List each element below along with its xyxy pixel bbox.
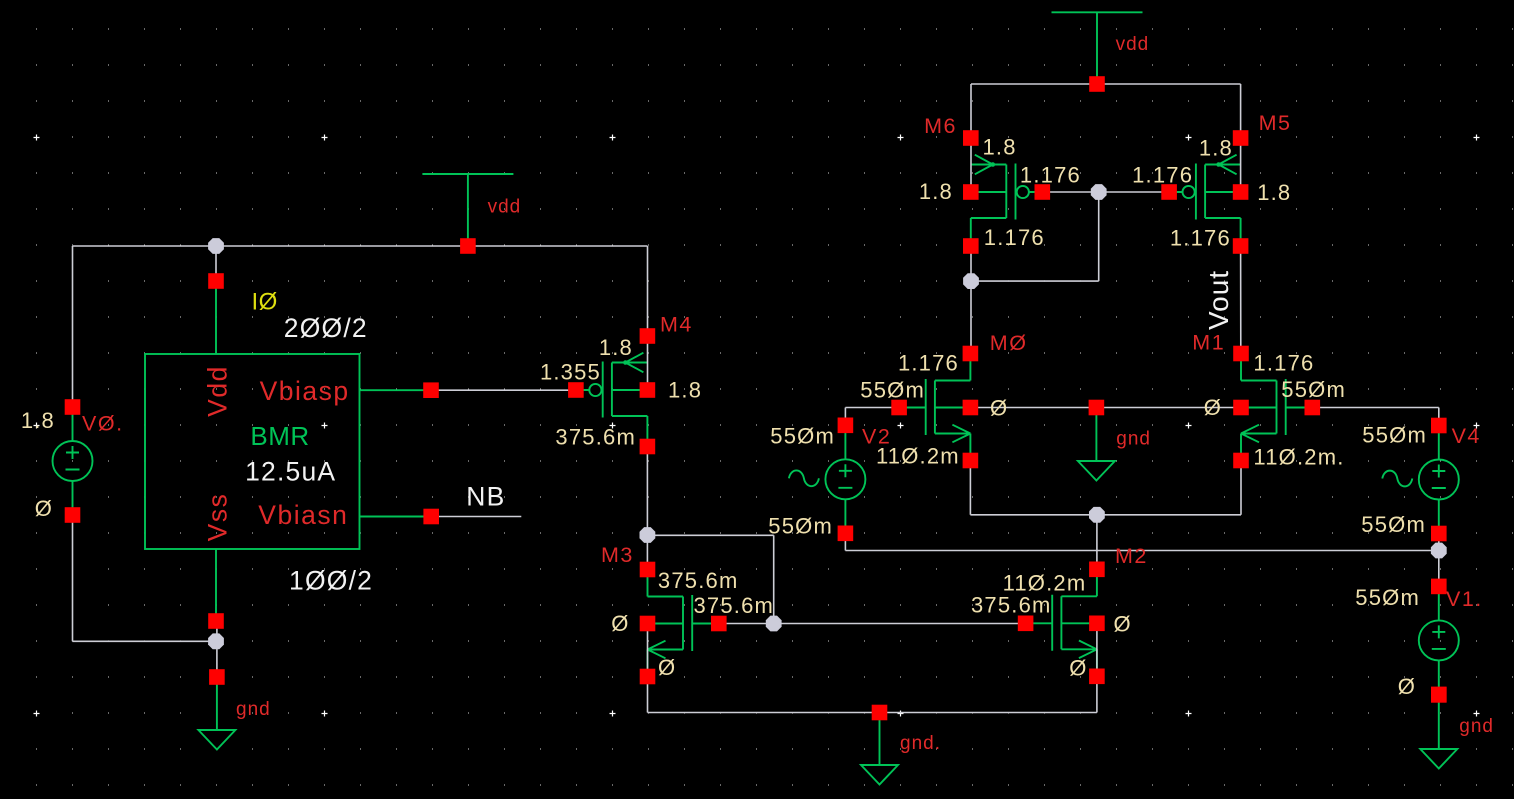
svg-text:M2: M2	[1115, 544, 1148, 568]
svg-text:55Øm: 55Øm	[1361, 512, 1426, 537]
svg-text:1.176: 1.176	[1132, 163, 1193, 188]
svg-text:1.8: 1.8	[599, 335, 633, 360]
svg-text:BMR: BMR	[250, 421, 309, 451]
svg-text:375.6m: 375.6m	[694, 593, 775, 618]
svg-text:Vss: Vss	[203, 493, 233, 542]
svg-text:gnd: gnd	[1459, 716, 1494, 737]
svg-text:55Øm: 55Øm	[860, 378, 925, 403]
svg-text:1.176: 1.176	[1253, 351, 1314, 376]
svg-text:Ø: Ø	[1114, 612, 1132, 637]
svg-text:1.8: 1.8	[21, 408, 55, 433]
svg-text:375.6m: 375.6m	[971, 593, 1052, 618]
svg-text:M4: M4	[660, 312, 693, 336]
svg-text:Vbiasn: Vbiasn	[258, 500, 348, 530]
svg-text:1ØØ/2: 1ØØ/2	[289, 565, 373, 595]
svg-text:1.8: 1.8	[1257, 180, 1291, 205]
svg-text:gnd: gnd	[236, 699, 271, 720]
svg-text:NB: NB	[466, 482, 505, 512]
svg-text:vdd: vdd	[488, 197, 522, 218]
svg-text:55Øm: 55Øm	[770, 424, 835, 449]
svg-text:375.6m: 375.6m	[555, 424, 636, 449]
svg-text:M6: M6	[924, 114, 957, 138]
svg-text:Ø: Ø	[35, 496, 53, 521]
svg-text:55Øm: 55Øm	[1281, 377, 1346, 402]
svg-text:1.8: 1.8	[1199, 136, 1233, 161]
svg-text:55Øm: 55Øm	[768, 514, 833, 539]
svg-text:11Ø.2m.: 11Ø.2m.	[1253, 445, 1344, 470]
svg-text:M3: M3	[601, 543, 634, 567]
svg-text:Ø: Ø	[1069, 656, 1087, 681]
svg-text:vdd: vdd	[1116, 34, 1150, 55]
svg-text:1.176: 1.176	[898, 351, 959, 376]
svg-text:Ø: Ø	[658, 655, 676, 680]
svg-text:1.8: 1.8	[919, 179, 953, 204]
svg-text:12.5uA: 12.5uA	[245, 456, 336, 486]
svg-text:Ø: Ø	[1204, 395, 1222, 420]
svg-text:M1: M1	[1192, 331, 1225, 355]
svg-text:375.6m: 375.6m	[658, 568, 739, 593]
svg-text:IØ: IØ	[252, 289, 278, 316]
svg-text:Ø: Ø	[611, 611, 629, 636]
svg-text:1.355: 1.355	[540, 360, 601, 385]
svg-text:M5: M5	[1259, 111, 1292, 135]
svg-text:1.176: 1.176	[984, 225, 1045, 250]
svg-text:Vdd: Vdd	[203, 365, 233, 417]
svg-text:gnd: gnd	[1116, 429, 1151, 450]
svg-text:1.176: 1.176	[1170, 225, 1231, 250]
svg-text:V1.: V1.	[1446, 587, 1483, 611]
svg-text:1.8: 1.8	[983, 135, 1017, 160]
svg-text:2ØØ/2: 2ØØ/2	[284, 313, 368, 343]
svg-text:Vout: Vout	[1203, 270, 1234, 330]
svg-text:MØ: MØ	[990, 331, 1028, 355]
svg-text:V4: V4	[1452, 424, 1481, 448]
svg-text:Vbiasp: Vbiasp	[260, 376, 350, 406]
svg-text:55Øm: 55Øm	[1355, 585, 1420, 610]
svg-text:Ø: Ø	[1398, 674, 1416, 699]
svg-text:1.8: 1.8	[668, 378, 702, 403]
svg-text:1.176: 1.176	[1020, 163, 1081, 188]
svg-text:gnd.: gnd.	[900, 733, 941, 754]
svg-text:Ø: Ø	[990, 395, 1008, 420]
svg-text:55Øm: 55Øm	[1362, 423, 1427, 448]
svg-text:VØ.: VØ.	[82, 412, 124, 436]
svg-text:V2: V2	[862, 425, 891, 449]
